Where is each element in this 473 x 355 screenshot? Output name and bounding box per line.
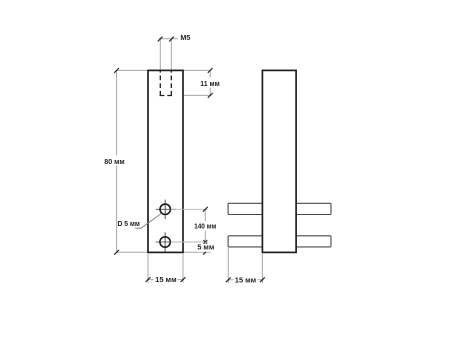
extension line 140mm from hole 1 center — [171, 208, 208, 210]
dimension line 11mm vertical — [209, 70, 211, 95]
svg-text:80 мм: 80 мм — [104, 157, 124, 166]
label 140mm — [193, 221, 219, 231]
tick 15mm side left — [226, 277, 231, 282]
side view body — [262, 70, 296, 252]
hole 2 (D5) — [160, 237, 170, 247]
tick 15mm front right — [181, 277, 186, 282]
extension lines M5 vertical — [159, 38, 161, 71]
extension line 11mm bottom — [172, 94, 212, 96]
tick 11mm top — [208, 68, 213, 73]
dimension line 15mm side — [228, 279, 264, 281]
extension line from hole 2 center — [171, 241, 208, 243]
pin upper (through bar) — [228, 203, 331, 214]
extension line bottom edge — [116, 251, 211, 253]
tick 80mm bottom — [114, 250, 119, 255]
front view body — [148, 70, 183, 252]
centerline hole 2 horizontal — [156, 241, 176, 243]
label 5mm — [197, 244, 215, 252]
svg-text:11 мм: 11 мм — [200, 79, 220, 88]
centerline hole 2 vertical — [164, 232, 166, 251]
svg-text:15 мм: 15 мм — [235, 275, 256, 284]
hole 1 (D5) — [160, 204, 170, 214]
tick M5 left — [158, 37, 163, 42]
svg-text:5 мм: 5 мм — [197, 243, 214, 252]
dimension line 80mm vertical — [116, 70, 118, 252]
svg-text:M5: M5 — [180, 33, 190, 42]
label 15mm side — [234, 275, 258, 285]
label 80mm — [103, 155, 127, 165]
leader D5 — [135, 214, 161, 229]
extension lines 15mm side view — [227, 248, 229, 284]
tick 11mm bottom — [208, 93, 213, 98]
tapped hole M5 (hidden lines) — [159, 70, 161, 95]
extension line top edge (80mm / 11mm datum) — [116, 69, 211, 71]
centerline hole 1 vertical — [164, 200, 166, 219]
svg-text:140 мм: 140 мм — [194, 221, 216, 230]
dimension line M5 — [159, 38, 179, 40]
svg-text:D 5 мм: D 5 мм — [118, 219, 140, 228]
label 11mm — [199, 78, 222, 88]
centerline hole 1 horizontal — [156, 208, 176, 210]
tick M5 right — [169, 37, 174, 42]
dimension line 140mm vertical — [204, 209, 206, 242]
tick 5mm bottom — [203, 250, 208, 255]
dimension line 5mm vertical — [204, 242, 206, 252]
extension lines 15mm front view — [147, 253, 149, 283]
label 15mm front — [154, 275, 178, 285]
svg-text:15 мм: 15 мм — [155, 275, 176, 284]
dimension line 15mm front — [147, 279, 184, 281]
tick 140mm top — [203, 207, 208, 212]
pin lower (through bar) — [228, 236, 331, 247]
x mark 140mm/5mm shared — [203, 240, 207, 244]
tick 15mm front left — [146, 277, 151, 282]
tick 80mm top — [114, 68, 119, 73]
tick 15mm side right — [260, 277, 265, 282]
